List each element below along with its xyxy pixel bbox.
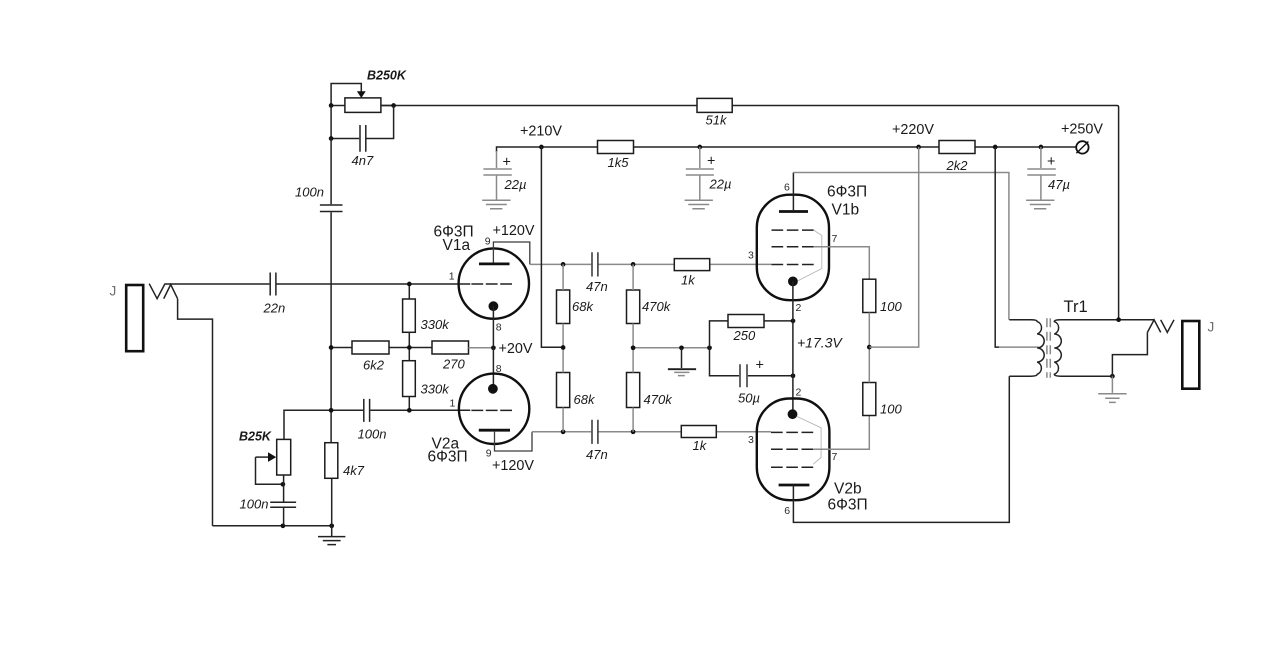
node: 470k bottom junction xyxy=(631,429,636,434)
ground: 22u no1 xyxy=(482,200,510,209)
node: secondary bottom junction xyxy=(1110,374,1115,379)
wire: cathode vertical V1b-V2b xyxy=(792,281,794,414)
node: 470k mid junction xyxy=(631,345,636,350)
node: 100n bottom junction xyxy=(281,523,286,528)
svg-text:3: 3 xyxy=(748,434,754,446)
node: 47u junction xyxy=(1039,145,1044,150)
pentode V2b envelope xyxy=(757,399,830,501)
svg-text:22µ: 22µ xyxy=(709,177,732,192)
svg-text:330k: 330k xyxy=(421,382,451,397)
node: 68k bottom junction xyxy=(561,429,566,434)
wire: pot right lead to rail xyxy=(381,105,394,107)
wire: 4n7 right side up to rail xyxy=(366,106,393,139)
svg-text:6k2: 6k2 xyxy=(363,358,385,373)
capacitor 22u no2 stem and ground xyxy=(699,147,701,200)
node: secondary top junction xyxy=(1116,317,1121,322)
transformer secondary winding xyxy=(1054,320,1118,377)
wire: screen feed from +220V grey xyxy=(869,147,918,347)
resistor 68k upper body xyxy=(557,290,570,324)
svg-text:+17.3V: +17.3V xyxy=(797,335,843,351)
resistor 330k upper body xyxy=(403,299,416,332)
node: ground junction mid xyxy=(679,345,684,350)
potentiometer B250K arrowhead xyxy=(357,91,366,98)
wire: feedback vertical x=331 upper xyxy=(330,139,332,443)
wire: input signal line to V1a grid xyxy=(165,283,471,285)
V2b grid dashes row2 xyxy=(771,448,813,450)
V1b grid dashes row3 xyxy=(772,264,814,266)
wire: 6k2 row xyxy=(331,347,432,349)
svg-text:+: + xyxy=(1047,154,1055,170)
svg-text:+: + xyxy=(503,155,511,171)
wire: secondary bottom lead xyxy=(1089,375,1112,377)
wire: +210V rail xyxy=(497,147,940,152)
input jack J rectangle xyxy=(126,285,143,351)
resistor 100 upper body xyxy=(863,279,876,312)
wire: left drop to 4n7 xyxy=(331,106,359,139)
V2a anode plate xyxy=(479,429,510,432)
ground: output xyxy=(1111,376,1113,393)
wire: wiper up-and-over link xyxy=(331,84,361,106)
svg-text:+210V: +210V xyxy=(520,124,562,140)
wire: 250 right lead xyxy=(764,320,793,322)
output jack switch lambda xyxy=(1147,320,1160,333)
node: 6k2 left junction xyxy=(329,345,334,350)
input jack tip contact V xyxy=(149,284,165,299)
capacitor 22u no1 stem and ground xyxy=(496,151,498,200)
V2b cathode dot xyxy=(788,409,798,419)
V1a grid dashes xyxy=(471,283,512,285)
wire: grey ground row 470k to 250 xyxy=(633,347,709,349)
svg-text:68k: 68k xyxy=(572,299,594,314)
resistor 100 lower body xyxy=(863,383,876,416)
wire: 50u branch xyxy=(710,348,740,376)
svg-text:2: 2 xyxy=(796,302,802,314)
svg-text:100n: 100n xyxy=(240,497,269,512)
input jack switch lambda xyxy=(164,285,178,299)
node: B25K bottom junction xyxy=(281,482,286,487)
V2b anode plate xyxy=(779,484,810,487)
wire: cathode vertical V1a-V2a xyxy=(492,306,494,389)
wire: 68k lower stems xyxy=(562,348,564,432)
node: 68k mid junction xyxy=(561,345,566,350)
resistor 1k lower body xyxy=(681,426,716,438)
svg-text:100n: 100n xyxy=(295,185,324,200)
wire: 1k to V1b grid xyxy=(710,263,772,265)
svg-text:470k: 470k xyxy=(644,392,674,407)
svg-text:B250K: B250K xyxy=(367,69,407,83)
svg-text:8: 8 xyxy=(496,321,502,333)
svg-text:9: 9 xyxy=(485,236,491,248)
transformer core dashes xyxy=(1047,318,1050,377)
node: 330k mid junction xyxy=(407,345,412,350)
node: 250-50u left junction xyxy=(707,345,712,350)
node: +210 down junction xyxy=(539,145,544,150)
V2a grid dashes xyxy=(471,409,512,411)
wire: 330k chain stems xyxy=(408,284,410,410)
V2b internal beam link xyxy=(797,417,821,465)
capacitor 100n mid plates xyxy=(364,399,370,422)
svg-text:B25K: B25K xyxy=(239,430,272,444)
svg-text:22n: 22n xyxy=(263,301,286,316)
wire: feedback vertical through 4k7 to ground xyxy=(331,478,333,526)
capacitor C 4n7 plates xyxy=(360,125,366,152)
svg-text:4k7: 4k7 xyxy=(343,463,365,478)
wire: 100 mid stems grey xyxy=(868,313,870,383)
ground: 22u no2 xyxy=(685,200,713,209)
V1b internal beam link xyxy=(798,230,822,281)
node: 68k top junction xyxy=(561,262,566,267)
svg-text:100n: 100n xyxy=(358,427,387,442)
ground: middle xyxy=(681,348,683,368)
wire: V1b anode lead up xyxy=(792,173,794,212)
wire: V2b pin7 to 100 bottom xyxy=(813,415,869,449)
node: 4n7 left junction xyxy=(329,136,334,141)
svg-text:47n: 47n xyxy=(586,279,608,294)
wire: secondary top lead to jack xyxy=(1119,319,1154,321)
svg-text:2: 2 xyxy=(796,387,802,399)
svg-text:9: 9 xyxy=(486,447,492,459)
wire: 270 right stem grey xyxy=(469,347,494,349)
svg-text:50µ: 50µ xyxy=(738,391,760,406)
svg-text:4n7: 4n7 xyxy=(352,153,374,168)
svg-text:1k: 1k xyxy=(681,273,696,288)
svg-text:+120V: +120V xyxy=(492,458,534,474)
ground: 47u xyxy=(1026,200,1054,209)
svg-text:+: + xyxy=(756,358,764,374)
svg-text:68k: 68k xyxy=(574,392,596,407)
wire: bottom ground line xyxy=(213,525,332,527)
node: 100 mid junction xyxy=(867,345,872,350)
V1b grid dashes row1 xyxy=(772,229,814,231)
node: 2k2 out junction xyxy=(993,145,998,150)
node: 22u no2 junction xyxy=(697,145,702,150)
resistor 6k2 body xyxy=(352,341,389,354)
wire: jack sleeve path down and right xyxy=(178,299,213,526)
node: 330k top junction on input line xyxy=(407,282,412,287)
svg-text:1: 1 xyxy=(449,270,455,282)
svg-text:J: J xyxy=(1208,320,1215,335)
svg-text:6Ф3П: 6Ф3П xyxy=(828,497,868,514)
svg-text:1k5: 1k5 xyxy=(608,155,630,170)
resistor 470k lower body xyxy=(627,373,640,408)
svg-text:+220V: +220V xyxy=(892,122,934,138)
svg-text:470k: 470k xyxy=(642,299,672,314)
svg-text:270: 270 xyxy=(442,357,465,372)
svg-text:7: 7 xyxy=(832,451,838,463)
svg-text:6Ф3П: 6Ф3П xyxy=(428,449,468,466)
wire: top feedback rail from pot to right vertical xyxy=(381,106,1119,320)
svg-text:+250V: +250V xyxy=(1061,122,1103,138)
wire: V2b anode lead down and to transformer xyxy=(793,376,1009,522)
svg-text:7: 7 xyxy=(832,233,838,245)
output jack J rectangle xyxy=(1182,321,1199,389)
wire: 470k lower stems xyxy=(632,348,634,432)
svg-text:22µ: 22µ xyxy=(504,177,527,192)
wire: 1k to V2b grid xyxy=(716,431,771,433)
resistor 1k5 body xyxy=(598,141,634,154)
V1a anode plate xyxy=(479,262,510,265)
wire: 50u right lead xyxy=(748,375,793,377)
svg-text:V1b: V1b xyxy=(832,202,860,219)
resistor 1k upper body xyxy=(674,259,709,271)
node: pot right junction xyxy=(391,103,396,108)
capacitor 47u stem and ground xyxy=(1040,147,1042,200)
wire: 100n mid row xyxy=(284,410,470,439)
triode V2a envelope xyxy=(459,374,529,444)
resistor 4k7 body xyxy=(325,443,338,479)
potentiometer B25K body xyxy=(277,439,291,475)
wire: B25K bottom lead to 100n bottom xyxy=(283,475,285,526)
resistor 51k body xyxy=(697,98,732,112)
svg-text:47n: 47n xyxy=(586,447,608,462)
svg-text:1: 1 xyxy=(450,397,456,409)
node: 330k bottom junction xyxy=(407,408,412,413)
capacitor 100n bottom plates xyxy=(270,502,296,507)
node: bottom ground junction xyxy=(329,523,334,528)
node: 470k top junction xyxy=(631,262,636,267)
potentiometer B25K arrow xyxy=(256,456,269,458)
node: pot left junction xyxy=(329,103,334,108)
pentode V1b envelope xyxy=(757,195,829,301)
wire: +210V drop to 68k mid junction xyxy=(541,147,563,347)
node: 50u right junction xyxy=(791,373,796,378)
wire: pot left lead xyxy=(331,105,345,107)
svg-text:+: + xyxy=(707,154,715,170)
V1b anode plate xyxy=(779,210,808,213)
svg-text:6: 6 xyxy=(784,505,790,517)
wire: 250 branch xyxy=(710,321,729,348)
svg-text:6Ф3П: 6Ф3П xyxy=(827,184,867,201)
resistor 270 body xyxy=(432,341,469,354)
svg-text:330k: 330k xyxy=(421,317,451,332)
wire: V1b anode grey line to transformer top xyxy=(793,173,1009,320)
V2b grid dashes row1 xyxy=(771,431,813,433)
svg-text:V1a: V1a xyxy=(443,237,471,254)
svg-text:51k: 51k xyxy=(706,113,728,128)
wire: V2a anode jog to signal line xyxy=(495,431,533,451)
capacitor 22n plates xyxy=(270,273,276,296)
svg-text:100: 100 xyxy=(880,402,902,417)
capacitor 50u plates xyxy=(740,364,747,387)
wire: 470k upper stems xyxy=(632,264,634,347)
capacitor 47n top plates xyxy=(592,252,598,276)
resistor 2k2 body xyxy=(939,141,975,154)
transformer primary winding xyxy=(1009,320,1044,377)
node: +220V junction xyxy=(916,145,921,150)
svg-text:47µ: 47µ xyxy=(1048,177,1070,192)
V1a cathode dot xyxy=(489,301,499,311)
node: 250 right junction xyxy=(791,319,796,324)
wire: B25K wiper link xyxy=(256,457,283,484)
ground: bottom left xyxy=(331,526,333,536)
svg-text:250: 250 xyxy=(733,328,756,343)
svg-text:Tr1: Tr1 xyxy=(1064,298,1088,316)
triode V1a envelope xyxy=(459,248,529,318)
V2a cathode dot xyxy=(488,384,498,394)
svg-text:+120V: +120V xyxy=(493,223,535,239)
potentiometer B250K body xyxy=(345,98,381,113)
terminal +250V circle xyxy=(1076,141,1088,153)
capacitor 47n bottom plates xyxy=(592,420,598,444)
V1b cathode dot xyxy=(788,277,798,287)
resistor 330k lower body xyxy=(403,361,416,397)
node: cathode +20V junction xyxy=(491,345,496,350)
svg-text:J: J xyxy=(110,284,117,299)
wire: V2a signal line cap to 1k xyxy=(598,431,681,433)
V2b grid dashes row3 xyxy=(771,466,813,468)
wire: V1b pin7 to 100 top xyxy=(814,247,870,279)
svg-text:+20V: +20V xyxy=(499,341,533,357)
resistor 68k lower body xyxy=(557,373,570,408)
svg-text:V2b: V2b xyxy=(834,481,862,498)
wire: rail 2k2 to terminal xyxy=(975,146,1076,148)
svg-text:6: 6 xyxy=(784,182,790,194)
capacitor 100n top plates xyxy=(320,205,343,212)
svg-text:1k: 1k xyxy=(693,438,708,453)
svg-text:3: 3 xyxy=(748,249,754,261)
wire: 2k2 out down to center tap xyxy=(995,147,999,347)
wire: 68k upper stems xyxy=(562,264,564,347)
node: 100n mid left junction xyxy=(329,408,334,413)
wire: V1a signal line cap to 1k xyxy=(598,263,674,265)
svg-text:2k2: 2k2 xyxy=(946,158,969,173)
resistor 250 body xyxy=(728,315,764,328)
wire: V1a anode jog to signal line xyxy=(493,242,529,264)
svg-text:100: 100 xyxy=(880,299,902,314)
V1b grid dashes row2 xyxy=(772,246,814,248)
wire: jack sleeve link xyxy=(1112,332,1147,376)
output jack tip contact V xyxy=(1161,320,1174,333)
resistor 470k upper body xyxy=(627,290,640,324)
